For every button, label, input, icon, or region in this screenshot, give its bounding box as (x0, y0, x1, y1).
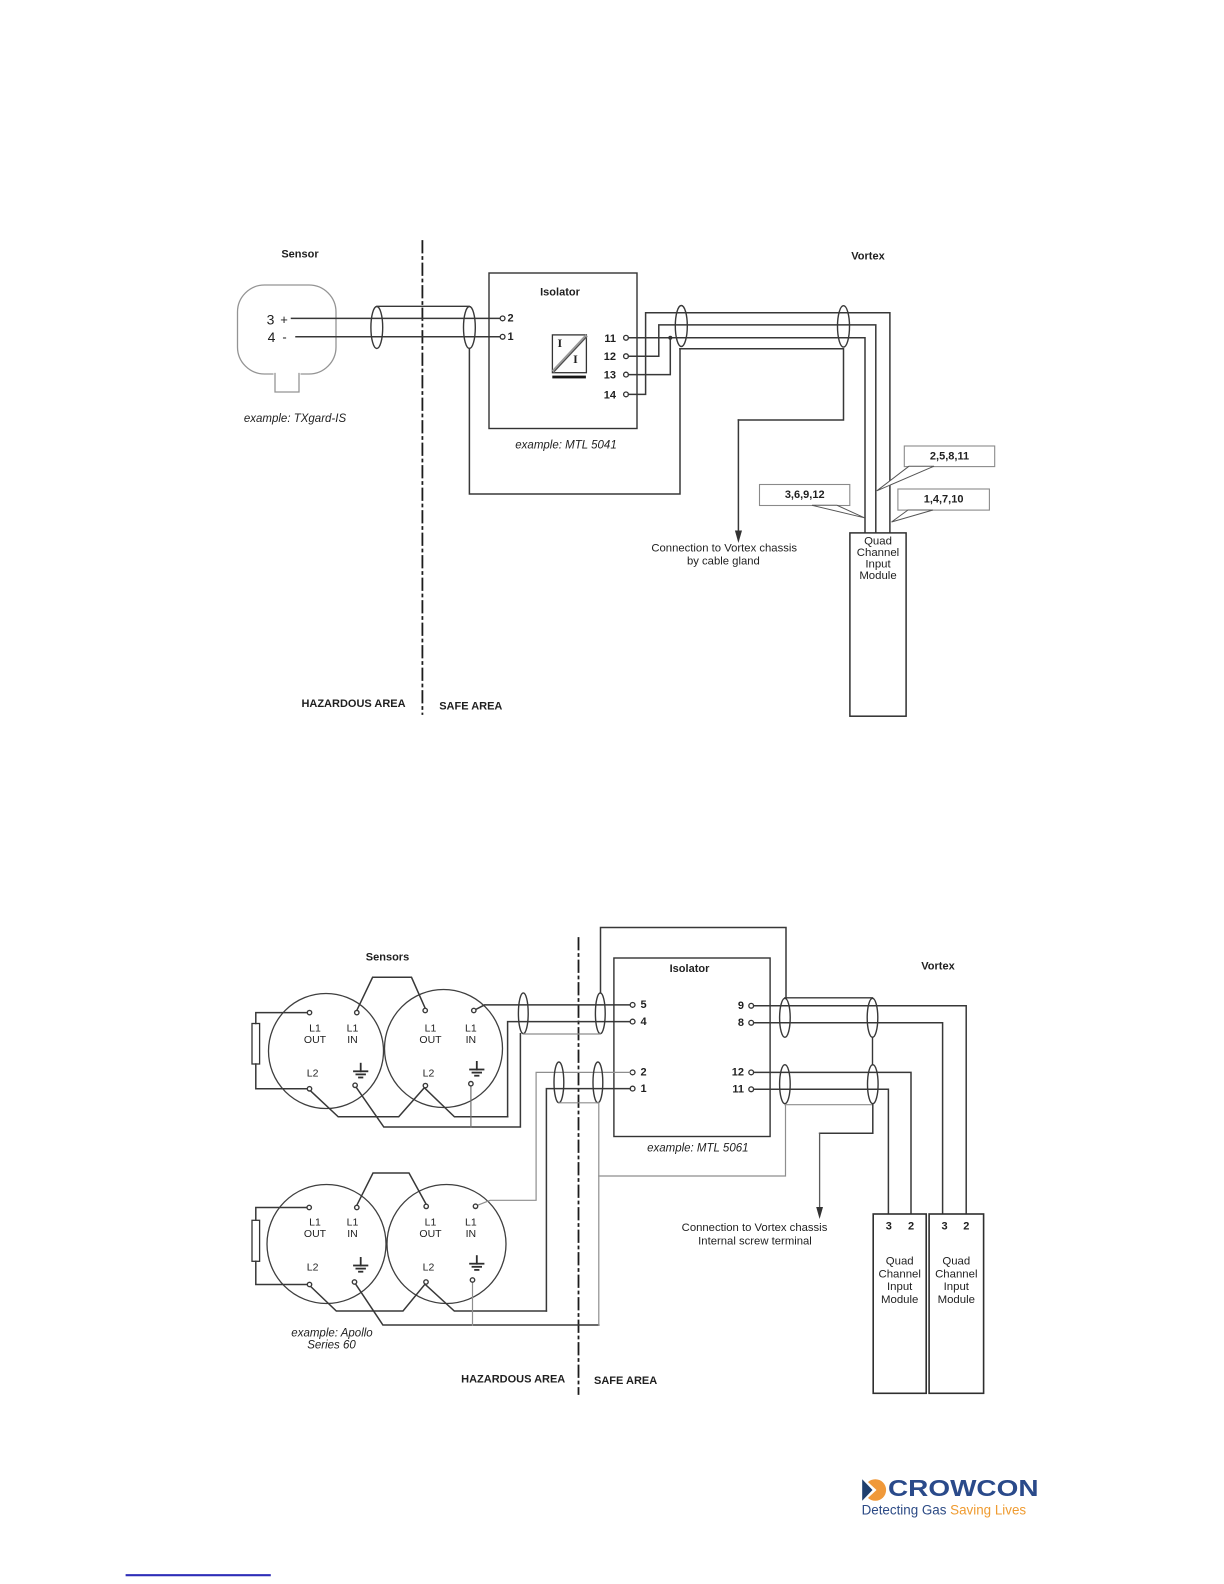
svg-text:Detecting Gas Saving Lives: Detecting Gas Saving Lives (862, 1502, 1027, 1517)
svg-text:Series 60: Series 60 (307, 1340, 356, 1352)
wire isolator pin 4 to L2 bus (pair 1) (508, 1022, 631, 1117)
wire pin 12 to module 1 terminal 2 (754, 1072, 911, 1213)
wire chassis connection arrow stem (737, 420, 739, 531)
wire isolator pin 1 to L2 bus (pair 2) (546, 1089, 630, 1311)
svg-text:HAZARDOUS AREA: HAZARDOUS AREA (301, 698, 405, 710)
svg-text:Vortex: Vortex (851, 250, 885, 262)
isolator U2 pin 5 (630, 1003, 635, 1008)
cable 12/11 bottom tube line (785, 1104, 873, 1106)
svg-text:4: 4 (268, 329, 276, 345)
wire cable screen loop below isolator (469, 349, 680, 495)
wire pin 9 to module 2 terminal 2 (754, 1006, 967, 1214)
chassis connection arrowhead (735, 531, 742, 544)
quad channel input module 2 (bottom) (929, 1214, 984, 1393)
wire screen link between output cables (872, 1037, 874, 1065)
svg-text:example: MTL 5061: example: MTL 5061 (647, 1142, 748, 1154)
quad channel input module 1 (bottom) (873, 1214, 926, 1393)
isolator U2 box (614, 958, 770, 1137)
wire sensor 3+ to isolator pin 2 (292, 317, 501, 319)
cable 9/8 top tube line (785, 997, 873, 999)
svg-text:Input: Input (887, 1281, 913, 1293)
output cable gland oval (pins 9/8 right) (867, 998, 878, 1037)
svg-text:1: 1 (508, 331, 514, 343)
svg-text:L1: L1 (347, 1216, 359, 1228)
svg-text:9: 9 (738, 1000, 744, 1012)
sensor A labels (304, 1022, 359, 1079)
wire R2 bottom to C L2 (256, 1261, 307, 1284)
svg-text:Channel: Channel (857, 547, 899, 559)
output cable gland oval (pins 12/11 right) (868, 1065, 879, 1104)
Crowcon logo icon white notch (862, 1477, 877, 1504)
cable pair1 bottom tube line (523, 1033, 600, 1035)
svg-text:IN: IN (347, 1034, 358, 1046)
wire pin 8 to module 2 terminal 3 (754, 1023, 943, 1214)
Crowcon logo icon orange disc (865, 1479, 887, 1501)
svg-text:Quad: Quad (864, 536, 892, 548)
wire L2 bus pair 1 (311, 1088, 508, 1117)
svg-text:L1: L1 (465, 1216, 477, 1228)
svg-text:13: 13 (604, 370, 616, 382)
svg-text:12: 12 (604, 351, 616, 363)
resistor R2 (pair 2) (252, 1220, 260, 1261)
sensor C labels (304, 1216, 359, 1273)
svg-text:L1: L1 (347, 1022, 359, 1034)
callout box 3,6,9,12 (760, 485, 850, 506)
wire sensor 4- to isolator pin 1 (296, 336, 500, 338)
svg-text:4: 4 (641, 1016, 648, 1028)
svg-text:L2: L2 (307, 1261, 319, 1273)
sensor TXgard-IS body (238, 285, 337, 374)
isolator U2 pin 1 (630, 1086, 635, 1091)
cable gland pair1 oval right (595, 993, 605, 1034)
svg-text:Sensors: Sensors (366, 952, 409, 964)
Crowcon logo icon navy triangle (862, 1479, 872, 1501)
isolator I/I symbol box (552, 335, 586, 373)
output cable gland oval (pins 9/8 left) (780, 998, 791, 1037)
svg-text:Input: Input (944, 1281, 970, 1293)
wire B L1 IN to isolator pin 5 (476, 1005, 630, 1010)
svg-text:11: 11 (604, 333, 616, 345)
wire L2 bus pair 2 (311, 1284, 547, 1311)
svg-text:SAFE AREA: SAFE AREA (594, 1375, 657, 1387)
wire pin 11 to module 1 terminal 3 (754, 1089, 889, 1214)
svg-text:-: - (282, 330, 286, 345)
svg-text:Internal screw terminal: Internal screw terminal (698, 1235, 812, 1247)
isolator I/I symbol underline bar (552, 376, 586, 379)
hazardous/safe area boundary line (bottom) (578, 938, 580, 1394)
junction dot pins 11/13 (668, 336, 672, 340)
svg-text:Sensor: Sensor (281, 249, 319, 261)
svg-text:14: 14 (604, 389, 617, 401)
wire link C L1 IN to D L1 OUT (tent pair 2) (357, 1173, 426, 1205)
cable gland pair2 oval left (554, 1062, 564, 1103)
svg-text:8: 8 (738, 1017, 744, 1029)
svg-text:Input: Input (865, 559, 891, 571)
svg-text:Module: Module (881, 1294, 918, 1306)
quad channel input module (top) (850, 533, 906, 716)
svg-text:OUT: OUT (419, 1228, 442, 1240)
svg-text:2: 2 (908, 1220, 914, 1232)
wire ground bus pair 1 (356, 1034, 520, 1127)
sensor neck (274, 372, 301, 391)
svg-text:SAFE AREA: SAFE AREA (439, 700, 502, 712)
svg-text:+: + (280, 312, 288, 327)
svg-text:Module: Module (859, 570, 896, 582)
svg-text:3: 3 (267, 311, 275, 327)
wire screen to internal terminal arrow (820, 1105, 873, 1134)
svg-text:3,6,9,12: 3,6,9,12 (785, 489, 825, 501)
svg-text:Channel: Channel (935, 1269, 977, 1281)
svg-text:Connection to Vortex chassis: Connection to Vortex chassis (682, 1222, 828, 1234)
internal terminal arrowhead (816, 1207, 823, 1219)
svg-text:2,5,8,11: 2,5,8,11 (930, 450, 969, 462)
svg-text:L2: L2 (423, 1067, 435, 1079)
wire pin 11 to module (629, 338, 866, 533)
svg-text:Isolator: Isolator (540, 287, 580, 299)
cable gland oval left (371, 307, 383, 349)
wire screen bundle line to second gland (680, 349, 844, 420)
svg-text:L1: L1 (425, 1022, 437, 1034)
cable pair2 bottom tube line (559, 1102, 598, 1104)
svg-text:Vortex: Vortex (921, 961, 955, 973)
svg-text:L1: L1 (309, 1216, 321, 1228)
callout box 1,4,7,10 (898, 489, 990, 510)
ground symbol sensor A (354, 1064, 367, 1078)
wire R2 top to C L1 OUT (256, 1208, 307, 1221)
wire screen chain pair2 cable to ground bus (598, 1103, 600, 1325)
wire isolator pin 2 to D L1 IN (478, 1072, 631, 1205)
wire B ground drop (470, 1086, 472, 1127)
svg-text:L1: L1 (465, 1022, 477, 1034)
svg-text:L1: L1 (425, 1216, 437, 1228)
sensor A circle (269, 994, 384, 1109)
sensor D labels (419, 1216, 476, 1273)
svg-text:I: I (557, 336, 562, 350)
footer rule (127, 1574, 270, 1576)
isolator U1 box (489, 273, 637, 429)
svg-text:L2: L2 (423, 1261, 435, 1273)
cable gland pair2 oval right (593, 1062, 603, 1103)
wire pin 12 to module (629, 325, 876, 533)
sensor D circle (387, 1185, 506, 1304)
cable gland tube top line (377, 305, 469, 307)
resistor R1 (pair 1) (252, 1024, 260, 1065)
wire screen top link to output cable (601, 928, 787, 999)
cable gland pair1 oval left (518, 993, 528, 1034)
cable gland oval (isolator output, left) (675, 306, 687, 347)
svg-text:example: Apollo: example: Apollo (291, 1327, 373, 1339)
svg-text:12: 12 (732, 1067, 744, 1079)
module 1 text (878, 1256, 920, 1307)
wire pin 13 riser (629, 338, 671, 375)
wire screen branch to output cable 2 (599, 1104, 786, 1176)
svg-text:OUT: OUT (419, 1034, 442, 1046)
svg-text:2: 2 (508, 313, 514, 325)
svg-text:example: MTL 5041: example: MTL 5041 (515, 440, 616, 452)
module 2 text (935, 1256, 977, 1307)
svg-text:OUT: OUT (304, 1034, 327, 1046)
sensor pin circles (all small terminals) (307, 1008, 478, 1286)
isolator pin 1 (500, 334, 505, 339)
svg-text:Isolator: Isolator (670, 963, 710, 975)
sensor B circle (385, 990, 503, 1108)
svg-text:1,4,7,10: 1,4,7,10 (924, 494, 964, 506)
svg-text:example: TXgard-IS: example: TXgard-IS (244, 413, 347, 425)
wire R1 bottom to A L2 (256, 1064, 307, 1089)
svg-text:IN: IN (466, 1034, 477, 1046)
svg-text:I: I (573, 352, 578, 366)
svg-text:3: 3 (886, 1220, 892, 1232)
isolator U2 pin 2 (630, 1070, 635, 1075)
svg-text:HAZARDOUS AREA: HAZARDOUS AREA (461, 1374, 565, 1386)
svg-text:2: 2 (963, 1220, 969, 1232)
svg-text:3: 3 (941, 1220, 947, 1232)
svg-text:11: 11 (732, 1084, 744, 1096)
svg-text:2: 2 (641, 1067, 647, 1079)
ground symbol sensor B (470, 1062, 483, 1076)
svg-text:Connection to Vortex chassis: Connection to Vortex chassis (651, 543, 797, 555)
svg-text:5: 5 (641, 999, 647, 1011)
cable gland oval right (464, 307, 476, 349)
wire D ground drop (472, 1282, 474, 1325)
wire link A L1 IN to B L1 OUT (tent pair 1) (357, 977, 425, 1010)
ground symbol sensor D (470, 1256, 483, 1270)
ground symbol sensor C (354, 1258, 367, 1272)
svg-text:L1: L1 (309, 1022, 321, 1034)
svg-text:IN: IN (347, 1228, 358, 1240)
svg-text:by cable gland: by cable gland (687, 556, 760, 568)
svg-text:IN: IN (466, 1228, 477, 1240)
wire pin 14 to module (629, 313, 890, 533)
sensor B labels (419, 1022, 476, 1079)
sensor C circle (267, 1185, 386, 1304)
wire R1 top to A L1 OUT (256, 1013, 307, 1024)
wire ground bus pair 2 (356, 1284, 599, 1325)
svg-text:L2: L2 (307, 1067, 319, 1079)
svg-text:Channel: Channel (878, 1269, 920, 1281)
isolator pin 2 (500, 316, 505, 321)
svg-text:Quad: Quad (942, 1256, 970, 1268)
svg-text:OUT: OUT (304, 1228, 327, 1240)
hazardous/safe area boundary line (top) (421, 241, 423, 714)
svg-text:CROWCON: CROWCON (888, 1475, 1039, 1501)
isolator U2 pin 4 (630, 1019, 635, 1024)
cable gland oval (isolator output, right) (838, 306, 850, 347)
svg-text:Quad: Quad (886, 1256, 914, 1268)
output cable gland oval (pins 12/11 left) (780, 1065, 791, 1104)
svg-text:Module: Module (938, 1294, 975, 1306)
svg-text:1: 1 (641, 1083, 647, 1095)
callout box 2,5,8,11 (904, 446, 994, 467)
